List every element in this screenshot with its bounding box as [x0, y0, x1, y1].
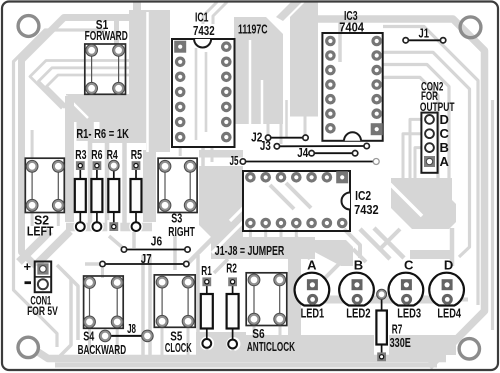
wire trace pour to top edge	[276, 2, 302, 21]
wire trace below S3 vertical	[173, 235, 177, 270]
resistor R1	[201, 277, 213, 347]
wire trace top-left outer band	[22, 18, 130, 267]
wire trace white clearance R5 label	[127, 141, 146, 162]
wire trace inside IC1 vertical 1	[195, 48, 198, 140]
wire trace white channel CON2 pour	[390, 184, 422, 216]
wire trace through S1 row2	[39, 68, 130, 108]
svg-text:R2: R2	[226, 261, 237, 276]
svg-text:J1: J1	[419, 26, 430, 41]
svg-text:R6: R6	[91, 147, 102, 162]
IC socket U IC3	[322, 33, 382, 141]
label CON1 minus	[25, 281, 32, 284]
wire trace above IC1 notch 1	[203, 2, 217, 24]
resistor R5	[131, 161, 142, 231]
svg-text:LEFT: LEFT	[27, 223, 54, 238]
wire trace halo R2 pad	[226, 337, 240, 351]
svg-text:J7: J7	[141, 251, 152, 266]
wire trace S2 pad stub up	[31, 130, 34, 158]
switch S4	[84, 276, 124, 328]
jumper J6	[121, 247, 190, 252]
svg-text:LED3: LED3	[397, 306, 421, 321]
wire trace white channel text gap 2	[94, 122, 100, 141]
copper pour bottom band right of R7	[389, 335, 456, 355]
wire trace through S1 row3	[47, 75, 130, 108]
svg-text:B: B	[354, 258, 363, 273]
wire trace inside IC1 vertical 2	[205, 52, 208, 132]
wire trace pour stub J5	[304, 116, 307, 135]
copper pour between S1 and IC1	[129, 10, 170, 152]
resistor R3	[75, 161, 86, 231]
wire trace branch to S1 pad	[114, 18, 119, 45]
copper pour right of S3 upper	[199, 150, 243, 158]
wire trace blob diag to LED B	[353, 249, 366, 262]
wire trace inside IC3	[338, 16, 342, 62]
LED LED4	[429, 273, 464, 306]
resistor R4	[108, 160, 119, 231]
wire trace resistor bottom band	[66, 223, 152, 232]
copper pour right of S6	[288, 258, 301, 358]
jumper J7	[100, 261, 189, 266]
wire trace halo R3 pad	[74, 220, 88, 234]
wire trace white channel S3 pour 2	[212, 221, 244, 253]
wire trace IC2 stub 3	[280, 228, 283, 238]
resistor R2	[227, 277, 239, 348]
switch S5	[154, 275, 195, 327]
svg-text:FOR 5V: FOR 5V	[27, 304, 58, 318]
resistor R7	[376, 289, 387, 361]
wire trace big wrap top-right	[318, 19, 485, 367]
wire trace LED A stub	[303, 252, 310, 259]
wire trace white clearance R7 bottom pad	[375, 350, 389, 365]
wire trace J7 pad down stub	[101, 268, 104, 278]
wire trace S6 stub 1	[253, 325, 256, 356]
svg-text:11197C: 11197C	[238, 21, 268, 36]
wire trace J6 to band	[109, 236, 123, 248]
wire trace white clearance R4 label	[110, 141, 122, 162]
wire trace right edge v3	[491, 100, 494, 330]
svg-text:R4: R4	[107, 147, 119, 162]
wire trace S6 stub 2	[279, 325, 282, 356]
copper pour bottom band anticlock	[240, 335, 374, 357]
wire trace IC3 corner 3	[383, 77, 438, 178]
wire trace inside IC2 second	[286, 183, 311, 208]
wire trace S6 pour diag	[296, 238, 309, 250]
wire trace halo R6 pad	[90, 220, 104, 234]
jumper J8	[99, 330, 153, 342]
wire trace right edge v2	[383, 27, 478, 306]
wire trace S4 stub 2	[116, 328, 119, 356]
jumper J5	[240, 159, 379, 165]
svg-text:B: B	[440, 140, 449, 155]
IC socket U IC1	[172, 39, 235, 147]
svg-text:J5: J5	[230, 153, 239, 168]
jumper J1	[403, 38, 446, 43]
wire trace IC3 corner 2	[383, 65, 449, 179]
svg-text:D: D	[440, 112, 449, 127]
svg-text:BACKWARD: BACKWARD	[78, 342, 127, 357]
wire trace white channel below S1	[66, 96, 88, 118]
svg-text:LED2: LED2	[346, 306, 370, 321]
wire trace between pours	[285, 100, 288, 137]
wire trace R1 stub	[206, 347, 209, 358]
wire trace pour stub J2	[267, 124, 270, 136]
wire trace behind R6-R4	[105, 141, 110, 226]
LED LED1	[295, 273, 330, 306]
mounting hole bottom-right	[459, 339, 479, 359]
wire trace inside IC2	[270, 185, 294, 209]
wire trace behind S5 left 1	[141, 255, 145, 355]
wire trace CON2 D stub	[410, 119, 421, 178]
wire trace halo R5 pad	[129, 220, 143, 234]
wire trace bottom band 2	[38, 352, 446, 359]
wire trace gray diag to J7	[188, 221, 230, 263]
wire trace diag to CON1 1	[36, 231, 70, 265]
wire trace CON2 C stub	[403, 134, 421, 178]
copper pour right of S2	[65, 96, 74, 222]
copper pour blob between A and B	[307, 240, 353, 266]
wire trace pour stub J3	[280, 124, 283, 144]
svg-text:J3: J3	[260, 138, 271, 153]
wire trace IC2 stub 1	[249, 228, 252, 238]
jumper J3	[274, 143, 369, 149]
wire trace white channel text gap 1	[71, 122, 77, 141]
wire trace diag to LED C 1	[360, 229, 390, 259]
mounting hole bottom-left	[18, 337, 38, 357]
svg-text:LED1: LED1	[301, 306, 325, 321]
wire trace behind R3-R6	[88, 128, 93, 226]
wire trace S5 to R1	[196, 255, 200, 355]
copper pour between R5 and S3	[143, 150, 156, 222]
wire trace top-left inner band	[14, 30, 106, 347]
svg-text:D: D	[444, 258, 453, 273]
wire trace blob diag to band	[319, 263, 340, 284]
wire trace IC1 to IC2	[201, 147, 205, 171]
wire trace band to J6 area	[132, 232, 136, 248]
svg-text:J1-J8 = JUMPER: J1-J8 = JUMPER	[215, 243, 285, 258]
svg-text:LED4: LED4	[437, 306, 461, 321]
svg-text:J4: J4	[297, 145, 308, 160]
wire trace below IC2	[210, 220, 240, 224]
wire trace LED4 to edge	[452, 298, 468, 302]
svg-text:J8: J8	[127, 321, 136, 336]
svg-text:R5: R5	[131, 147, 142, 162]
wire trace S2 pad stub down 2	[57, 212, 60, 226]
svg-text:330E: 330E	[390, 335, 411, 350]
wire trace diag to LED C 2	[374, 228, 404, 258]
copper pour below S1	[66, 94, 155, 141]
wire trace halo R4 pad	[107, 220, 120, 233]
svg-text:C: C	[440, 126, 450, 141]
LED LED3	[389, 273, 424, 306]
wire trace S2 pad stub down 1	[31, 212, 34, 226]
wire trace CON2 B stub	[415, 148, 421, 178]
wire trace band to S5 diag	[214, 259, 228, 273]
connector CON1	[35, 262, 52, 293]
jumper J4	[309, 151, 358, 156]
svg-text:+: +	[24, 259, 32, 274]
switch S1	[85, 44, 126, 94]
svg-text:CLOCK: CLOCK	[165, 340, 192, 355]
switch S6	[246, 273, 287, 326]
svg-text:A: A	[307, 258, 317, 273]
wire trace R2 stub	[232, 347, 235, 358]
wire trace pour diag	[380, 229, 400, 249]
wire trace above IC1 notch 2	[213, 2, 227, 24]
svg-text:C: C	[404, 258, 414, 273]
wire trace white channel 11197C pour 1	[249, 40, 252, 124]
switch S3	[158, 158, 197, 212]
wire trace through S1 row1	[30, 61, 129, 109]
wire trace white clearance R6 label	[93, 141, 105, 162]
svg-text:R1: R1	[201, 263, 212, 278]
wire trace between CON1 and S4	[57, 265, 71, 356]
resistor R6	[91, 161, 102, 231]
switch S2	[25, 158, 64, 212]
mounting hole top-right	[460, 17, 481, 38]
copper pour right of center	[290, 2, 318, 117]
wire trace IC1 pad stub down	[179, 147, 182, 156]
svg-text:OUTPUT: OUTPUT	[420, 100, 455, 114]
mounting hole top-left	[18, 16, 39, 37]
wire trace vertical to LED D	[450, 228, 455, 266]
svg-text:J6: J6	[151, 233, 162, 248]
wire trace S4 stub 1	[88, 328, 91, 356]
wire trace S5 stub 1	[161, 327, 164, 356]
copper pour 11197C region	[234, 17, 283, 124]
copper pour right of S3	[199, 166, 243, 237]
wire trace white channel 11197C pour 2	[261, 80, 264, 124]
connector CON2	[421, 113, 437, 173]
wire trace white channel S1 pour	[146, 12, 149, 152]
copper pour under R1 R2	[196, 332, 246, 357]
copper pour below CON2	[391, 178, 456, 229]
svg-text:R3: R3	[75, 147, 86, 162]
wire trace IC3 corner 1	[383, 52, 470, 257]
svg-text:7404: 7404	[339, 19, 364, 34]
wire trace J7 west stub	[85, 262, 101, 266]
wire trace behind S5 left 2	[148, 255, 152, 355]
wire trace band above resistors	[88, 139, 150, 143]
svg-text:ANTICLOCK: ANTICLOCK	[247, 339, 295, 354]
svg-text:7432: 7432	[354, 202, 379, 217]
svg-text:7432: 7432	[193, 23, 215, 38]
wire trace IC2 stub 2	[264, 228, 267, 238]
copper pour jumper band	[211, 237, 315, 259]
wire trace IC2 stub 4	[295, 228, 298, 238]
wire trace LED bottom band	[305, 296, 452, 304]
svg-text:RIGHT: RIGHT	[168, 224, 195, 239]
svg-text:FORWARD: FORWARD	[85, 28, 128, 43]
wire trace CON1 to bottom	[64, 272, 78, 340]
wire trace halo R1 pad	[200, 336, 214, 350]
wire trace behind R4-R5	[122, 141, 127, 226]
wire trace CON2 band right	[410, 250, 451, 259]
svg-text:A: A	[440, 154, 450, 169]
svg-text:R1- R6 = 1K: R1- R6 = 1K	[76, 126, 129, 141]
wire trace above pour	[133, 2, 141, 12]
wire trace IC2 to LED B	[344, 229, 360, 258]
wire trace white channel S3 pour	[198, 207, 244, 253]
wire trace white clearance R3 label	[72, 141, 88, 162]
wire trace S5 stub 2	[187, 327, 190, 356]
LED LED2	[339, 273, 374, 306]
IC socket U IC2	[243, 171, 350, 231]
jumper J2	[265, 135, 308, 140]
wire trace right of IC1 vertical	[211, 147, 214, 162]
wire trace diag to CON1 2	[19, 231, 50, 262]
